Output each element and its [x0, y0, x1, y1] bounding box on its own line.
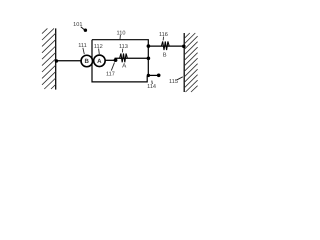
- svg-text:114: 114: [147, 84, 156, 90]
- svg-text:110: 110: [117, 30, 126, 36]
- label 111: [78, 43, 87, 54]
- label 116: [159, 32, 168, 41]
- label 101: [73, 22, 87, 32]
- junction dot box right edge to resistor 116: [147, 44, 151, 48]
- ground wall left (chassis): [42, 28, 56, 89]
- svg-text:B: B: [163, 53, 167, 59]
- svg-text:111: 111: [78, 43, 87, 49]
- label 117: [106, 62, 115, 77]
- wire node A to box right edge: [115, 57, 149, 59]
- terminal dot 114: [157, 74, 161, 78]
- svg-text:113: 113: [119, 44, 128, 50]
- enclosure box 110: [92, 40, 148, 82]
- label 114: [147, 81, 156, 91]
- wire box to resistor 116 to right wall: [148, 45, 184, 47]
- wire left wall to source B: [56, 60, 82, 62]
- wire ammeter A to node A: [100, 59, 116, 61]
- resistor 113: [120, 54, 128, 63]
- svg-text:A: A: [97, 58, 102, 65]
- junction dot box right edge main wire: [147, 57, 151, 61]
- ground wall right (chassis): [184, 33, 197, 92]
- source B (111): [81, 55, 93, 67]
- junction dot box right edge stub: [147, 74, 150, 77]
- label 113: [119, 44, 128, 52]
- node A junction dot: [114, 58, 118, 62]
- label 110: [117, 30, 126, 39]
- svg-text:115: 115: [169, 79, 178, 85]
- svg-text:117: 117: [106, 72, 115, 78]
- label 112: [94, 44, 103, 54]
- label 115: [169, 77, 183, 85]
- resistor 116: [161, 41, 169, 50]
- junction dot on left wall: [55, 59, 58, 62]
- ammeter A (112): [94, 55, 106, 67]
- junction dot on right wall: [182, 45, 186, 49]
- terminal stub 114: [148, 74, 158, 76]
- svg-text:B: B: [84, 58, 89, 65]
